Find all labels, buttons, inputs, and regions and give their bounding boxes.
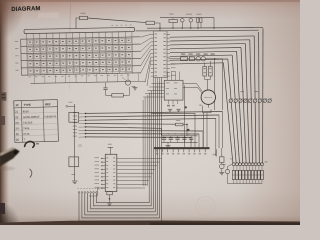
keyboard matrix column wires <box>26 34 29 76</box>
capacitor C2 <box>197 18 199 22</box>
IC2 power tick <box>109 147 111 154</box>
wire R1 to R2 <box>88 18 147 23</box>
edge blob 3 <box>0 203 5 214</box>
IC2 bottom tab <box>107 192 113 195</box>
bus vertical 3 <box>250 40 253 164</box>
vertical drops of middle wires <box>222 112 224 149</box>
upper filter rail <box>160 17 214 19</box>
svg-text:GATE ARRAY: GATE ARRAY <box>23 115 40 119</box>
connector J4 resistor pack <box>261 170 264 179</box>
diode D1 <box>181 19 185 23</box>
IC1 pin marks inside <box>155 33 157 36</box>
svg-text:8039: 8039 <box>23 109 30 113</box>
svg-text:25: 25 <box>16 132 20 136</box>
IC2 bottom-left step wire <box>89 188 105 196</box>
IC2 left pins <box>102 157 106 159</box>
chain wire <box>169 58 181 60</box>
svg-text:2716: 2716 <box>23 132 30 136</box>
verticals to bar <box>184 85 186 147</box>
IC2 pin marks <box>106 157 108 160</box>
IC1 left pins <box>151 33 154 35</box>
buzzer BZ1 <box>201 90 215 104</box>
bus vertical 7 <box>232 55 239 163</box>
capacitor bank caps <box>163 136 165 138</box>
wire R2 to IC1 <box>155 23 161 31</box>
svg-text:IC: IC <box>16 103 19 107</box>
connector J1 stem <box>74 104 76 181</box>
svg-text:23: 23 <box>78 144 82 148</box>
edge blob 1 <box>0 92 6 101</box>
IC3 top pins <box>167 72 169 81</box>
svg-text:A4: A4 <box>213 152 217 156</box>
IC3 body <box>164 80 183 100</box>
J4 left pin circle <box>225 169 229 173</box>
J1 pins <box>68 105 75 107</box>
comp circle <box>220 164 225 169</box>
connector J4 pin circles <box>261 163 264 166</box>
bus vertical 2 <box>254 36 256 164</box>
bus vertical 5 <box>241 48 246 164</box>
transistor Q1 <box>125 80 130 85</box>
dark mark B <box>187 129 190 131</box>
capacitor bank rails <box>162 135 198 137</box>
J4 common line <box>234 183 263 185</box>
resistor R4 <box>181 57 188 61</box>
ground G3 <box>72 174 75 176</box>
vertical bundle + bus loops <box>79 79 162 221</box>
IC3 inner marks <box>166 82 170 85</box>
electrolytic caps CE1 CE2 <box>203 67 207 77</box>
bus vertical 9 <box>223 63 233 164</box>
LED/comp at 216 <box>216 149 218 156</box>
comp box <box>220 157 224 163</box>
J1 box A <box>69 112 79 122</box>
heavy bus bar <box>154 147 210 149</box>
svg-text:74LS05: 74LS05 <box>23 120 33 124</box>
capacitor C4 <box>105 83 107 88</box>
matrix left rail <box>20 39 23 75</box>
ground G4 <box>107 202 112 204</box>
diode D3 <box>189 57 194 61</box>
ground under cap bank <box>167 142 169 145</box>
resistor R5 <box>112 94 124 97</box>
pen shadow <box>0 166 15 170</box>
pen <box>0 147 20 166</box>
bus vertical 0 <box>262 28 264 163</box>
wire R1 left to bar <box>76 18 80 29</box>
matrix bottom labels <box>28 76 30 79</box>
bus vertical 4 <box>245 44 249 164</box>
IC1 bottom pins <box>161 78 163 80</box>
svg-text:IC8088-00: IC8088-00 <box>44 115 56 118</box>
svg-text:24: 24 <box>15 126 19 130</box>
IC3 left pins to bundle <box>151 83 164 85</box>
paren mark <box>30 169 32 178</box>
IC1 right pins <box>167 33 170 35</box>
J1 box B <box>69 157 79 167</box>
connector J3 circles row <box>268 99 271 102</box>
bottom terminal labels <box>78 187 79 190</box>
op IC1 body <box>154 31 168 78</box>
capacitor C1 <box>169 19 177 22</box>
svg-text:REF: REF <box>45 102 51 106</box>
svg-text:DIAGRAM: DIAGRAM <box>11 6 40 13</box>
matrix lower return line <box>31 81 146 83</box>
parts table frame <box>14 100 59 143</box>
pen scribble on table <box>25 141 35 147</box>
svg-text:26: 26 <box>16 138 20 142</box>
rail end vertical <box>213 18 215 28</box>
buzzer bottom hook <box>207 104 209 107</box>
IC2 body <box>105 154 117 191</box>
svg-text:TYPE: TYPE <box>24 103 32 107</box>
resistor R2 <box>146 21 155 24</box>
svg-text:7406: 7406 <box>23 126 30 130</box>
lower rail / bus wire 0 <box>147 27 263 30</box>
varistor V1 <box>196 57 200 61</box>
svg-text:21: 21 <box>15 110 19 114</box>
middle bus wires <box>86 112 223 114</box>
bus vertical 6 <box>237 51 243 163</box>
IC3 bottom parts <box>168 100 170 104</box>
fan matrix to IC1 <box>141 34 151 37</box>
svg-text:20: 20 <box>15 115 19 119</box>
bus vertical 8 <box>228 59 236 164</box>
keyboard matrix row wires <box>21 37 140 39</box>
keyboard matrix bus bar <box>24 27 135 33</box>
edge blob 2 <box>0 116 5 125</box>
svg-text:BUZZER: BUZZER <box>204 97 213 99</box>
varistor V2 <box>201 57 205 61</box>
chain verticals <box>214 59 216 110</box>
svg-text:23: 23 <box>15 121 19 125</box>
IC2 right pins join bundle <box>117 157 162 159</box>
bus vertical 1 <box>258 32 261 164</box>
keyboard key switches <box>28 40 33 45</box>
bus wire 1 from matrix bar <box>136 29 259 32</box>
mid horizontal wire <box>151 112 195 114</box>
resistor R1 <box>80 16 88 19</box>
diode D2 <box>189 19 193 23</box>
ground G2 <box>132 85 136 87</box>
resistor R3 on wire <box>176 123 184 126</box>
buzzer feeds <box>183 84 202 92</box>
